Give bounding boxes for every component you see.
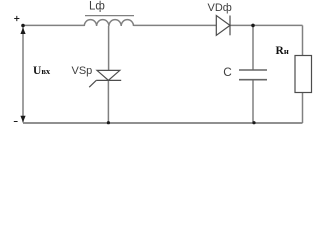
svg-text:VSр: VSр: [72, 65, 93, 77]
svg-text:Uвх: Uвх: [33, 65, 51, 77]
svg-text:Lф: Lф: [89, 0, 105, 12]
svg-text:C: C: [223, 65, 232, 79]
svg-text:Rн: Rн: [276, 45, 289, 57]
svg-text:VDф: VDф: [208, 2, 232, 14]
